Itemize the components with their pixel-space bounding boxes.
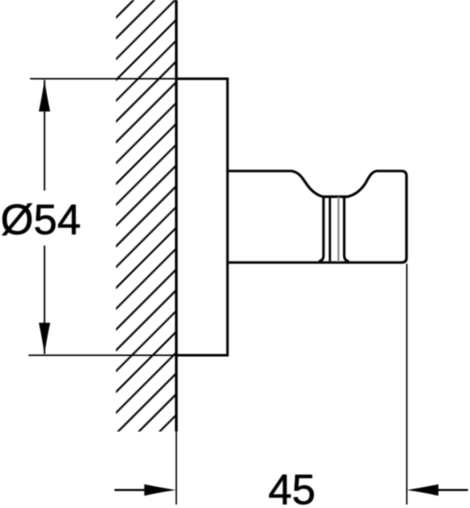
svg-text:Ø54: Ø54	[1, 197, 81, 244]
svg-text:45: 45	[268, 467, 315, 508]
